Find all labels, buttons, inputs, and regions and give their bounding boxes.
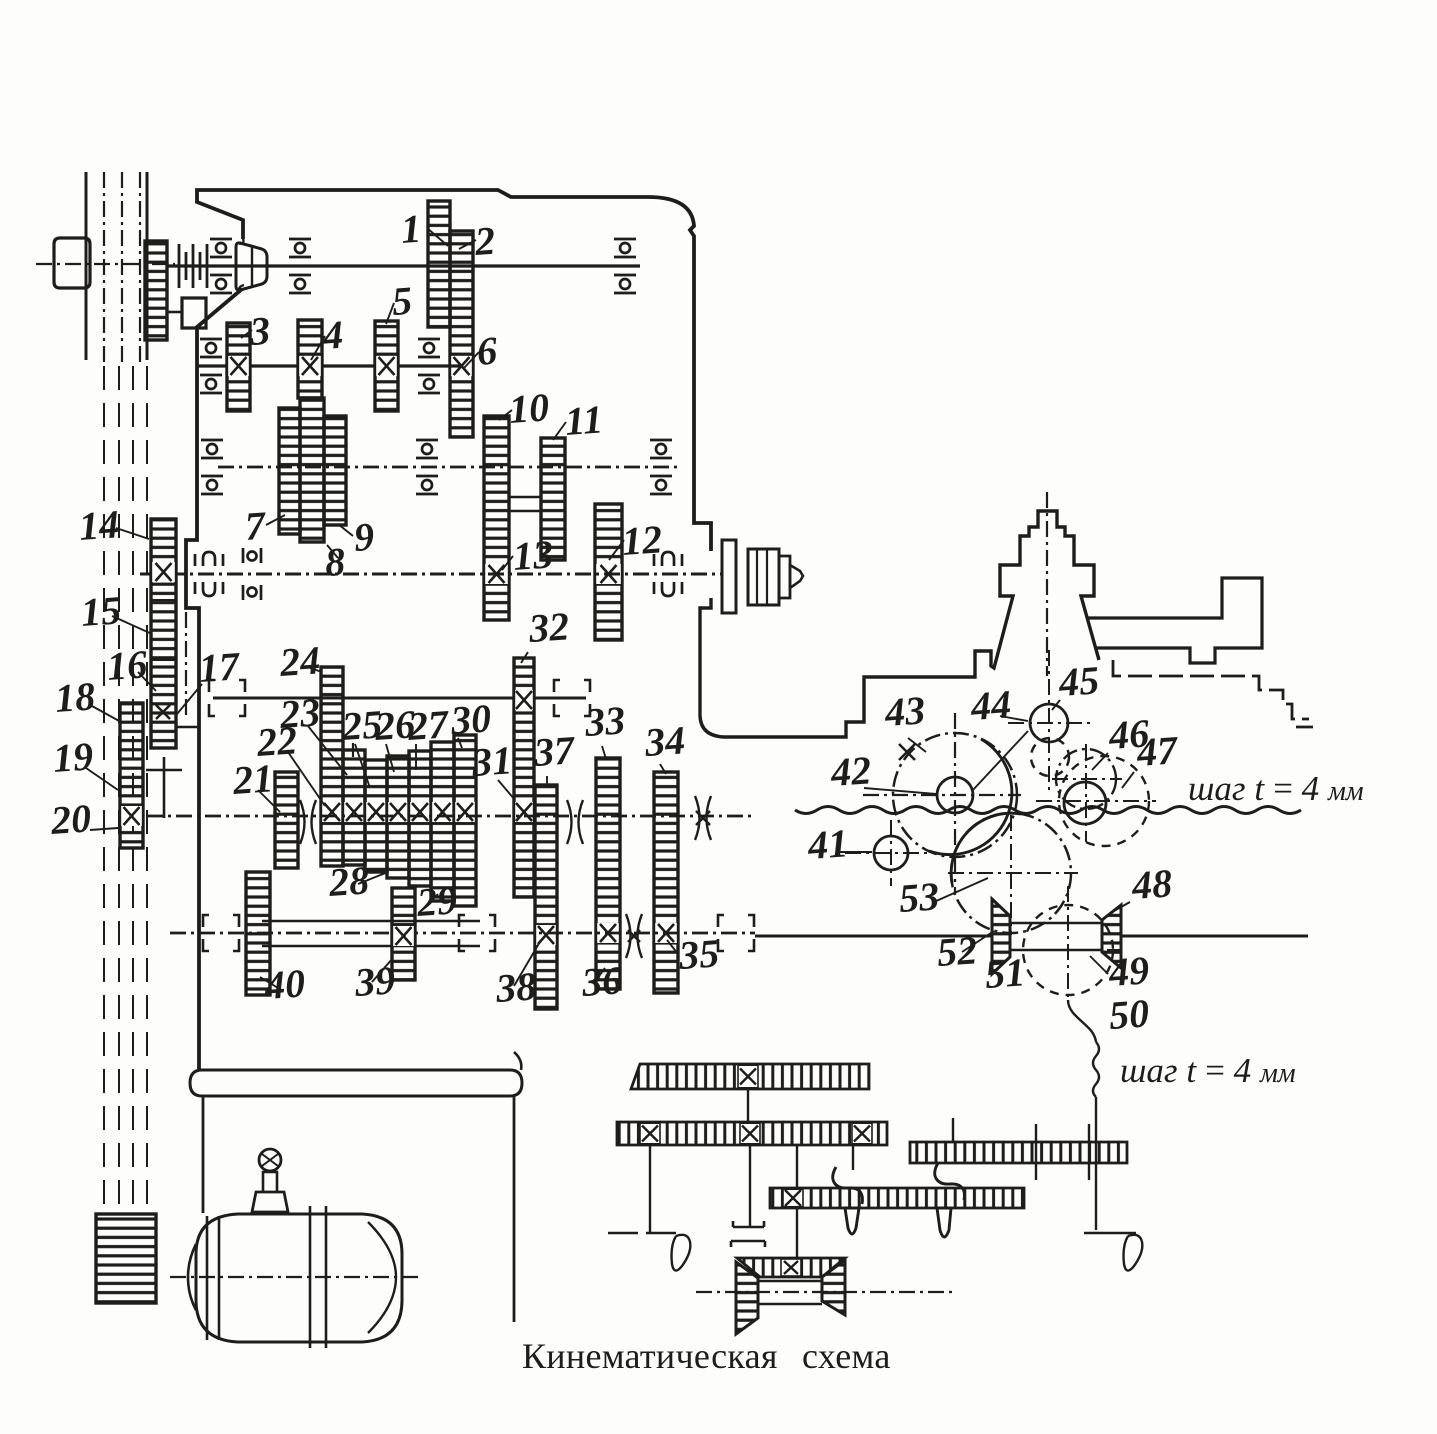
belt run line 2 [118, 366, 120, 1212]
label 15 leader [112, 616, 152, 634]
belt run line 1 [103, 366, 105, 1212]
label 4 leader [311, 336, 325, 360]
label 7 leader [266, 515, 285, 525]
bearing on shaft III right [650, 440, 672, 494]
label 23 leader [308, 726, 347, 775]
label 40 leader [260, 977, 278, 988]
bevel hub bottom [1010, 949, 1102, 952]
sleeve line 10-11 top [509, 496, 541, 498]
gear 4 [298, 320, 322, 398]
shift fork stem [163, 757, 166, 818]
label 33 leader [602, 746, 606, 759]
circle 51 axis h [1020, 949, 1120, 951]
gear 3 [227, 323, 250, 411]
svg-text:36: 36 [579, 957, 623, 1005]
motor body [196, 1214, 402, 1342]
svg-text:5: 5 [390, 278, 413, 324]
apron gear bar D [910, 1142, 1127, 1163]
hanger right post [513, 1096, 516, 1322]
gear 7 [279, 408, 300, 534]
circle 53 axis v [1010, 815, 1012, 935]
gear 26 [387, 756, 409, 878]
label 31 leader [498, 780, 515, 800]
circle 41 axis h [845, 852, 935, 854]
clutch disc 5 [206, 244, 209, 288]
svg-text:42: 42 [828, 747, 872, 795]
clutch half rings near gear 21 [300, 800, 316, 844]
gear 23 [343, 750, 365, 865]
bearing on shaft I left [210, 239, 232, 293]
shaft III line [218, 466, 680, 469]
apron ibeam upper [733, 1221, 764, 1227]
label 22 leader [288, 752, 325, 806]
label 21 leader [258, 790, 280, 812]
apron handle teardrop left [672, 1235, 691, 1271]
gear 31 with gear 32 [514, 658, 534, 897]
apron tick shaft 3 [1088, 1124, 1090, 1180]
apron shaft d vertical [796, 1145, 798, 1262]
gear 12 [595, 504, 622, 640]
bearing spindle left2 [243, 548, 261, 600]
svg-text:17: 17 [197, 643, 242, 691]
squiggle link to apron [1068, 1000, 1096, 1042]
clutch at shaft B right end [695, 796, 711, 840]
svg-text:18: 18 [53, 673, 96, 721]
shaft II line [196, 364, 462, 367]
wavy vertical to apron [1093, 1042, 1099, 1097]
label 27 leader [415, 744, 417, 770]
thrust bearing spindle left [195, 552, 223, 596]
gear circle 42 [937, 777, 973, 813]
clutch disc 3 [192, 244, 195, 288]
label 13 leader [502, 556, 513, 570]
gear circle 44 [1030, 704, 1068, 742]
spindle axis [140, 573, 722, 576]
label 46 leader [1092, 753, 1108, 770]
carriage edge end dash [1296, 726, 1313, 729]
label 18 leader [92, 706, 121, 722]
sleeve bracket shaft C mid [459, 915, 495, 951]
label 14 leader [116, 528, 149, 539]
svg-text:24: 24 [277, 637, 321, 685]
label 29 leader [432, 894, 438, 900]
sleeve bracket shaft V right [554, 680, 590, 716]
belt right edge [146, 172, 149, 360]
motor band 1b [218, 1216, 221, 1340]
label 17 leader [177, 684, 202, 714]
label 26 leader [386, 744, 394, 772]
gear 16 link to wall [176, 726, 199, 728]
chuck step [779, 556, 790, 598]
circle 47 axis h [1036, 800, 1156, 802]
label 9 leader [338, 524, 353, 536]
bevel hub top [1010, 922, 1102, 925]
apron shaft c vertical [749, 1145, 751, 1227]
svg-text:40: 40 [262, 960, 306, 1008]
hanger bar [190, 1070, 522, 1096]
belt run line 4 [146, 366, 148, 1212]
label 45 leader [1052, 700, 1060, 710]
apron bevel right cone [822, 1260, 845, 1315]
svg-text:28: 28 [326, 857, 370, 905]
bearing on shaft I right [614, 239, 636, 293]
sleeve bracket shaft V left [209, 680, 245, 716]
gear 34 with gear 35 [654, 772, 678, 993]
apron gear bar A [631, 1064, 869, 1089]
label 42 leader [864, 788, 936, 794]
gear 27 [409, 751, 431, 886]
circle 44 axis h [1008, 722, 1092, 724]
clutch between gears 36 and 35 [626, 914, 642, 958]
gear 2 with clutch 6 [450, 231, 473, 437]
svg-text:23: 23 [277, 689, 321, 737]
svg-text:7: 7 [243, 503, 268, 549]
label 47 leader [1122, 772, 1134, 788]
shaft B axis [118, 815, 755, 818]
label 52 leader [962, 931, 994, 952]
svg-text:6: 6 [475, 328, 498, 374]
label 44 leader [1000, 716, 1028, 721]
label 32 leader [521, 652, 528, 663]
svg-text:12: 12 [620, 516, 663, 564]
svg-text:3: 3 [247, 308, 271, 354]
label 43 leader [908, 738, 926, 752]
label 34 leader [660, 764, 666, 774]
gear 11 [541, 438, 565, 560]
motor knob base [252, 1192, 288, 1212]
gear circle 53 [951, 813, 1071, 933]
cone clutch inner line [251, 245, 253, 288]
housing notch hook bottom [239, 285, 244, 292]
sleeve line 10-11 bottom [509, 510, 541, 512]
gear 29 [431, 742, 454, 901]
shaft I line [167, 264, 640, 267]
svg-text:44: 44 [968, 681, 1012, 729]
feed rod right part [1121, 935, 1308, 938]
label 16 leader [138, 672, 156, 691]
pulley on shaft I [145, 241, 167, 340]
gear 53 solid arc [951, 813, 1021, 883]
gear 16 axis dash [185, 612, 187, 718]
shift fork bar [146, 769, 182, 772]
motor band 2a [309, 1206, 312, 1348]
svg-text:33: 33 [582, 697, 626, 745]
svg-text:16: 16 [105, 641, 148, 689]
svg-text:38: 38 [493, 963, 537, 1011]
apron bevel axis [696, 1291, 955, 1293]
circle 51 axis v [1067, 886, 1069, 1000]
gear 8 [300, 398, 324, 542]
label 35 leader [667, 940, 678, 954]
gear 24 with gear 22 [321, 667, 343, 866]
apron shaft b2 vertical [852, 1145, 854, 1170]
apron handle bar left [608, 1232, 683, 1235]
label 39 leader [372, 958, 393, 982]
square block under pulley [182, 298, 206, 328]
label 8 leader [327, 545, 338, 558]
detent x on cluster 16 [156, 705, 170, 719]
circle 44 axis v [1048, 650, 1050, 792]
chuck inner line 1 [756, 549, 758, 605]
clutch disc 1 [178, 244, 181, 288]
motor pulley block [96, 1214, 156, 1303]
circle 43 axis horizontal [863, 794, 1021, 796]
pinion stub right [937, 1208, 951, 1237]
clutch disc 2 [185, 252, 188, 280]
gear circle 46 [1056, 749, 1116, 809]
apron rod handle teardrop [1124, 1235, 1143, 1271]
svg-text:10: 10 [507, 384, 550, 432]
spindle flange [722, 540, 736, 613]
housing notch hook top [238, 238, 243, 244]
svg-text:шаг t = 4 мм: шаг t = 4 мм [1120, 1051, 1296, 1090]
svg-text:45: 45 [1056, 657, 1100, 705]
svg-text:2: 2 [472, 218, 496, 264]
cluster divider 15-16 [151, 659, 176, 661]
bearing on shaft III mid [416, 440, 438, 494]
gear 14 15 16 cluster [151, 519, 176, 748]
gear 33 with gear 36 [596, 758, 620, 989]
svg-text:4: 4 [320, 312, 344, 358]
svg-text:34: 34 [642, 717, 686, 765]
svg-text:43: 43 [882, 687, 926, 735]
belt inner line 1 [103, 172, 105, 362]
label 6 leader [464, 352, 479, 368]
belt inner line 3 [139, 172, 141, 362]
svg-text:15: 15 [79, 587, 122, 635]
carriage lower edge staircase [1113, 660, 1309, 719]
circle 53 axis h [948, 872, 1078, 874]
gear 37 with gear 38 [535, 785, 557, 1009]
label 19 leader [86, 768, 118, 790]
chuck inner line 2 [766, 549, 768, 605]
belt inner line 2 [121, 172, 123, 362]
svg-text:37: 37 [531, 727, 577, 775]
motor axis [170, 1276, 420, 1278]
hanger left post [202, 1096, 205, 1213]
apron vertical rod [1095, 1097, 1097, 1230]
svg-text:30: 30 [448, 695, 492, 743]
svg-text:53: 53 [897, 873, 940, 921]
label 12 leader [609, 540, 624, 560]
svg-text:Кинематическая схема: Кинематическая схема [522, 1336, 891, 1376]
belt left edge [85, 172, 88, 360]
shaft C bar bottom [262, 945, 480, 948]
hanger right hook [514, 1052, 521, 1070]
circle 46 axis v [1085, 744, 1087, 842]
circle 41 axis v [890, 820, 892, 886]
cone clutch on shaft I [236, 243, 267, 290]
motor knob neck [263, 1172, 277, 1192]
gear circle 51 [1023, 905, 1113, 995]
svg-text:11: 11 [563, 396, 604, 444]
svg-text:29: 29 [414, 877, 458, 925]
svg-text:39: 39 [352, 957, 396, 1005]
motor band 2b [325, 1206, 328, 1348]
housing notch lower slope [186, 289, 242, 1070]
apron shaft b vertical [649, 1145, 651, 1232]
shaft C axis [170, 932, 755, 935]
clutch on shaft B mid [567, 800, 583, 844]
svg-text:19: 19 [51, 733, 94, 781]
shaft C bar top [262, 920, 480, 923]
svg-text:51: 51 [983, 949, 1026, 997]
bevel gear 52 [992, 899, 1010, 974]
label 2 leader [459, 240, 476, 249]
apron gear bar C [770, 1188, 1024, 1208]
carriage upper line A [1088, 578, 1262, 663]
svg-text:1: 1 [399, 206, 422, 252]
label 48 leader [1112, 902, 1130, 912]
apron shaft a vertical [747, 1089, 749, 1122]
label 20 leader [90, 828, 118, 830]
gear 39 [392, 888, 415, 980]
apron bevel hub top [758, 1280, 822, 1282]
label 30 leader [458, 738, 462, 748]
label 28 leader [358, 872, 388, 884]
svg-text:47: 47 [1134, 727, 1180, 775]
svg-text:9: 9 [352, 514, 375, 560]
gear 43 solid arc [929, 739, 1012, 855]
gear 18 19 20 cluster [120, 703, 143, 848]
svg-text:49: 49 [1106, 947, 1150, 995]
apron bevel dish [737, 1258, 845, 1277]
gear 30 [454, 735, 476, 906]
housing right wall below spindle [700, 511, 1099, 737]
svg-text:27: 27 [405, 701, 451, 749]
shaft I axis [36, 263, 175, 265]
tool post axis [1046, 492, 1048, 676]
apron ibeam lower [731, 1241, 765, 1247]
label 37 leader [546, 776, 548, 786]
label 11 leader [553, 422, 566, 440]
tumbler link right [935, 1163, 965, 1200]
circle 43 axis vertical [954, 713, 956, 894]
gear 1 [428, 201, 450, 327]
feed rod left part [755, 935, 992, 938]
clutch disc 4 [199, 252, 202, 280]
housing top and right wall [197, 190, 711, 551]
gear 21 [275, 772, 298, 868]
apron bevel dish x [781, 1259, 801, 1276]
apron tick shaft 2 [1035, 1124, 1037, 1180]
motor end cap arc [368, 1222, 396, 1333]
gear 5 [375, 321, 398, 411]
plus mark near label 25 [346, 743, 360, 757]
gear 25 [365, 760, 387, 872]
label 51 leader [997, 958, 1008, 970]
motor left end arc [188, 1244, 196, 1310]
x in clutch 36-35 [628, 930, 640, 942]
leader diagonal 44-45 [972, 731, 1028, 791]
svg-text:50: 50 [1107, 990, 1150, 1038]
shaft V line [213, 697, 586, 700]
gear circle 43 [893, 733, 1017, 857]
gear 10 with gear 13 [484, 416, 509, 620]
gear circle 46 solid [1064, 782, 1106, 824]
motor knob ball lines [262, 1154, 278, 1166]
svg-text:20: 20 [48, 795, 92, 843]
bearing on shaft III left [201, 440, 223, 494]
label 24 leader [310, 668, 322, 672]
sleeve bracket shaft C left [203, 915, 239, 951]
pulley hub link [167, 311, 182, 314]
svg-text:14: 14 [77, 501, 120, 549]
label 25 leader [355, 744, 370, 788]
svg-text:31: 31 [469, 737, 513, 785]
label 49 leader [1090, 956, 1108, 974]
pinion stub left [845, 1208, 859, 1234]
apron rod handle bar [1084, 1232, 1136, 1235]
svg-text:52: 52 [935, 927, 978, 975]
bearing on shaft II right [418, 339, 440, 393]
svg-text:8: 8 [323, 539, 346, 585]
end block on shaft I [54, 238, 90, 288]
svg-text:35: 35 [676, 930, 720, 978]
motor band 1a [206, 1216, 209, 1340]
label 53 leader [934, 878, 988, 902]
label 41 leader [840, 851, 872, 853]
gear circle 45 [1031, 738, 1069, 776]
gear circle 41 [874, 836, 908, 870]
label 10 leader [499, 410, 512, 420]
bearing on shaft I mid [289, 239, 311, 293]
svg-text:шаг t = 4 мм: шаг t = 4 мм [1188, 769, 1364, 808]
thrust bearing spindle right [654, 552, 682, 596]
label 36 leader [596, 968, 605, 980]
center tip [790, 565, 803, 588]
belt run line 3 [132, 366, 134, 1212]
chuck body [748, 549, 779, 605]
svg-text:32: 32 [526, 603, 570, 651]
apron gear bar B [617, 1122, 887, 1145]
cluster divider 14-15 [151, 599, 176, 601]
bevel gear 48 [1102, 905, 1121, 968]
label 38 leader [514, 940, 541, 986]
x at shaft B right clutch [696, 811, 710, 825]
apron bevel hub bottom [758, 1303, 822, 1305]
apron tick shaft 1 [952, 1118, 954, 1142]
svg-text:13: 13 [511, 531, 554, 579]
apron bevel left cone [736, 1262, 758, 1334]
circle 46 axis h [1052, 778, 1122, 780]
tumbler link left [833, 1167, 863, 1204]
x mark on circle 43 rim [899, 744, 915, 760]
bearing on shaft II left [200, 339, 222, 393]
label 5 leader [386, 303, 394, 324]
svg-text:48: 48 [1129, 860, 1173, 908]
gear circle 47 [1059, 756, 1149, 846]
svg-text:41: 41 [805, 820, 849, 868]
leadscrew wavy line [795, 807, 1301, 814]
motor knob ball [259, 1149, 281, 1171]
label 3 leader [241, 330, 252, 338]
gear 40 [246, 872, 270, 995]
sleeve bracket shaft C right [718, 915, 754, 951]
label 1 leader [427, 228, 448, 246]
gear 9 [324, 416, 346, 525]
